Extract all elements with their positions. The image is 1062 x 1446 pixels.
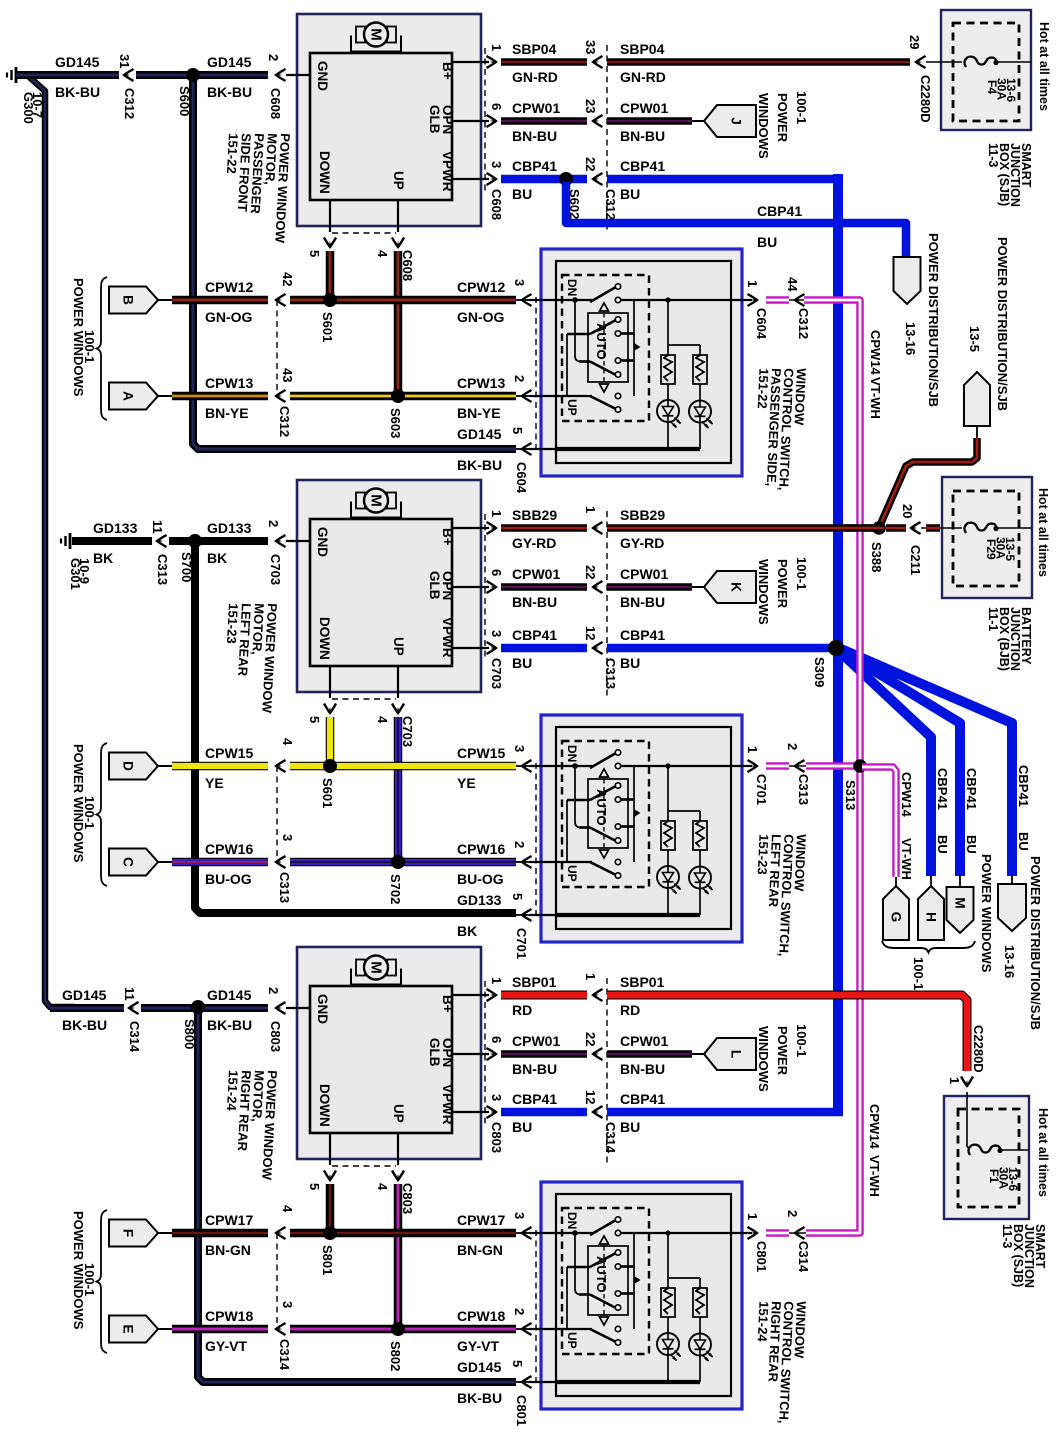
fuse F4 symbol xyxy=(965,57,996,67)
svg-text:CBP41: CBP41 xyxy=(935,768,950,810)
wire GND stub xyxy=(286,1007,311,1009)
svg-text:SBP01: SBP01 xyxy=(512,974,557,990)
wire CPW14 VT-WH jumper xyxy=(766,762,789,770)
svg-text:BK-BU: BK-BU xyxy=(457,457,502,473)
svg-text:GD133: GD133 xyxy=(207,520,252,536)
wire CPW01 BN-BU segment A xyxy=(501,1050,587,1058)
svg-text:20: 20 xyxy=(900,504,915,518)
svg-text:100-1: 100-1 xyxy=(794,91,809,124)
switch pin 1 arrow xyxy=(748,294,758,306)
svg-text:BK: BK xyxy=(207,550,227,566)
AUTO lower contact xyxy=(579,826,590,829)
wire GD145 BK-BU ground segment A xyxy=(50,1004,124,1012)
svg-text:B+: B+ xyxy=(440,528,455,546)
svg-text:CPW12: CPW12 xyxy=(457,279,505,295)
svg-text:1: 1 xyxy=(489,977,504,984)
svg-text:151-23: 151-23 xyxy=(224,603,241,644)
connector C2280D bottom arrow xyxy=(961,1077,973,1087)
svg-text:POWER: POWER xyxy=(775,1026,790,1076)
svg-text:CPW15: CPW15 xyxy=(205,745,253,761)
connector M xyxy=(947,887,974,933)
wire CPW18 GY-VT from E xyxy=(158,1328,172,1330)
window control switch block window control switch passenger side xyxy=(541,249,742,476)
pin UP stub xyxy=(397,666,399,698)
svg-text:S802: S802 xyxy=(388,1341,403,1371)
svg-text:GN-RD: GN-RD xyxy=(620,69,666,85)
svg-text:2: 2 xyxy=(512,841,527,848)
wire GD133 BK ground segment B xyxy=(169,537,268,545)
svg-text:C313: C313 xyxy=(277,872,292,903)
LED right xyxy=(689,1334,711,1356)
svg-text:13-6: 13-6 xyxy=(1006,1167,1020,1191)
svg-text:VPWR: VPWR xyxy=(440,617,455,658)
connector mid arrow xyxy=(593,1048,603,1060)
resistor right xyxy=(693,1288,707,1317)
svg-text:C604: C604 xyxy=(514,462,529,494)
connector left arrow bottom xyxy=(276,390,286,402)
wire DN contact row xyxy=(529,299,592,301)
svg-text:BN-BU: BN-BU xyxy=(512,128,557,144)
svg-text:GD133: GD133 xyxy=(93,520,138,536)
splice S601 row2 dot xyxy=(323,759,337,773)
pin 1 stub xyxy=(452,994,489,996)
svg-text:1: 1 xyxy=(947,1077,962,1084)
illumination branch wire xyxy=(667,766,669,821)
connector C803 pin 1 arrow xyxy=(487,989,497,1001)
pin UP stub xyxy=(397,1133,399,1165)
wire GD145 BK-BU left ground bus xyxy=(27,75,75,1007)
svg-text:C801: C801 xyxy=(514,1395,529,1426)
svg-text:3: 3 xyxy=(489,161,504,168)
svg-text:C312: C312 xyxy=(277,406,292,437)
mid arrow out xyxy=(795,1227,805,1239)
pin lead-in lines xyxy=(516,765,532,767)
brace 100-1 power windows xyxy=(97,1210,108,1353)
svg-text:C211: C211 xyxy=(908,545,923,575)
svg-text:151-23: 151-23 xyxy=(755,834,772,875)
pin 6 stub xyxy=(452,120,489,122)
wire into F4 xyxy=(926,61,962,63)
svg-text:12: 12 xyxy=(583,626,598,640)
ground G300 xyxy=(15,67,18,83)
connector mid arrow xyxy=(593,115,603,127)
connector C701 dashed xyxy=(535,763,537,918)
svg-text:CPW14: CPW14 xyxy=(867,1104,882,1150)
splice S601 dot xyxy=(323,293,337,307)
splice S800 xyxy=(192,1002,205,1015)
battery junction box xyxy=(942,477,1032,598)
svg-text:BN-BU: BN-BU xyxy=(620,1061,665,1077)
svg-text:POWER: POWER xyxy=(775,93,790,143)
brace 100-1 power windows xyxy=(97,277,108,420)
wire DN contact row xyxy=(529,1232,592,1234)
switch pin 5 arrow xyxy=(522,1376,532,1388)
switch dashed housing xyxy=(562,741,649,887)
svg-text:2: 2 xyxy=(512,375,527,382)
svg-text:3: 3 xyxy=(512,1212,527,1219)
svg-text:WINDOWS: WINDOWS xyxy=(756,93,771,159)
LED left xyxy=(657,1333,679,1355)
svg-text:2: 2 xyxy=(266,520,281,527)
svg-text:B+: B+ xyxy=(440,995,455,1013)
svg-text:BU: BU xyxy=(1016,832,1031,851)
power window motor block power window motor left rear xyxy=(297,480,481,692)
ground bus inside switch xyxy=(556,1380,700,1384)
connector C608 GND arrow xyxy=(276,69,286,81)
splice S602 dot redraw xyxy=(559,172,573,186)
svg-text:BN-BU: BN-BU xyxy=(512,594,557,610)
wire CPW14 VT-WH branch to G xyxy=(862,767,896,877)
svg-text:43: 43 xyxy=(280,368,295,382)
connector C314 arrow xyxy=(129,1002,139,1014)
wire SBP04 GN-RD long segment xyxy=(607,58,910,66)
wire CPW13 BN-YE from A xyxy=(158,395,172,397)
wire CPW01 BN-BU to J xyxy=(607,117,692,125)
svg-text:GN-OG: GN-OG xyxy=(457,309,505,325)
power window motor block power window motor right rear xyxy=(297,947,481,1159)
wire CPW15 YE from D xyxy=(158,765,172,767)
illumination branch wire xyxy=(667,1233,669,1288)
splice S309 xyxy=(828,640,844,656)
svg-text:151-22: 151-22 xyxy=(755,368,772,409)
svg-text:S601: S601 xyxy=(320,312,335,342)
svg-text:C608: C608 xyxy=(489,189,504,220)
wire into F29 xyxy=(921,527,962,529)
fuse F1 dashed box xyxy=(958,1109,1019,1207)
svg-text:A: A xyxy=(121,391,136,401)
svg-text:C604: C604 xyxy=(754,308,769,340)
svg-text:GND: GND xyxy=(315,527,330,557)
connector mid dashed line xyxy=(606,511,608,698)
connector dashed between DOWN and UP xyxy=(332,698,396,700)
resistor left xyxy=(661,1288,675,1317)
svg-text:C314: C314 xyxy=(277,1339,292,1371)
wire SBP01 RD long segment xyxy=(607,995,967,1071)
AUTO upper contact xyxy=(567,799,590,802)
connector C313 dashed xyxy=(276,766,278,862)
svg-text:6: 6 xyxy=(489,103,504,110)
wire CPW13 UP drop xyxy=(394,251,403,396)
pin 3 stub xyxy=(452,647,489,649)
svg-text:BU: BU xyxy=(512,655,532,671)
svg-text:RD: RD xyxy=(620,1002,640,1018)
switch pin 3 arrow xyxy=(522,294,532,306)
svg-text:2: 2 xyxy=(512,1308,527,1315)
svg-text:BN-BU: BN-BU xyxy=(620,594,665,610)
pin 6 stub xyxy=(452,586,489,588)
svg-text:1: 1 xyxy=(745,280,760,287)
svg-text:DOWN: DOWN xyxy=(317,617,332,660)
svg-text:4: 4 xyxy=(280,1205,295,1213)
switch lever DN xyxy=(590,1220,616,1235)
svg-text:RD: RD xyxy=(512,1002,532,1018)
wire after F4 xyxy=(996,61,1031,63)
svg-text:11: 11 xyxy=(122,987,137,1001)
stub to G xyxy=(895,877,897,887)
svg-text:100-1: 100-1 xyxy=(82,1263,97,1296)
splice S800 dot xyxy=(191,1000,205,1014)
wire CBP41 BU segment A xyxy=(501,1108,587,1117)
svg-text:3: 3 xyxy=(512,279,527,286)
svg-text:5: 5 xyxy=(307,1183,322,1190)
svg-text:UP: UP xyxy=(565,399,579,416)
ground bus inside switch xyxy=(556,913,700,917)
connector UP arrow xyxy=(392,704,404,714)
wire GND stub xyxy=(286,540,311,542)
motor symbol M xyxy=(351,502,401,518)
svg-text:S702: S702 xyxy=(388,874,403,904)
splice S700 dot xyxy=(188,534,202,548)
svg-text:POWER DISTRIBUTION/SJB: POWER DISTRIBUTION/SJB xyxy=(995,237,1010,411)
smart junction box bottom xyxy=(944,1096,1029,1219)
svg-text:GLB: GLB xyxy=(427,105,442,134)
wire CBP41 BU fan to 13-16 xyxy=(841,649,1012,876)
switch pin 3 arrow xyxy=(522,1227,532,1239)
svg-text:151-24: 151-24 xyxy=(755,1301,772,1343)
svg-text:YE: YE xyxy=(205,775,224,791)
wire CBP41 BU fan to H xyxy=(839,651,931,876)
smart junction box top xyxy=(941,10,1031,130)
svg-text:CPW14: CPW14 xyxy=(868,330,883,376)
connector C803 GND arrow xyxy=(276,1002,286,1014)
switch pin 3 arrow xyxy=(522,760,532,772)
svg-text:DN: DN xyxy=(565,279,579,296)
wire CPW13 BN-YE to switch xyxy=(290,392,516,401)
connector C703 dashed line xyxy=(484,514,486,661)
svg-text:29: 29 xyxy=(907,35,922,49)
svg-text:1: 1 xyxy=(745,1213,760,1220)
svg-text:GD145: GD145 xyxy=(62,987,107,1003)
svg-text:13-16: 13-16 xyxy=(903,322,918,355)
connector mid arrow xyxy=(593,642,603,654)
stub to M xyxy=(959,876,961,887)
svg-text:E: E xyxy=(121,1324,136,1333)
svg-text:GN-OG: GN-OG xyxy=(205,309,253,325)
splice S603 dot xyxy=(391,389,405,403)
connector C703 GND arrow xyxy=(276,535,286,547)
connector J xyxy=(692,120,704,122)
connector left arrow bottom xyxy=(276,1323,286,1335)
svg-text:CPW01: CPW01 xyxy=(512,100,560,116)
connector mid arrow xyxy=(593,581,603,593)
svg-text:11-1: 11-1 xyxy=(986,607,1000,631)
wire CBP41 BU row2 to S309 xyxy=(607,644,836,653)
svg-text:1: 1 xyxy=(745,746,760,753)
svg-text:GND: GND xyxy=(315,61,330,91)
pin 6 stub xyxy=(452,1053,489,1055)
connector C313 arrow xyxy=(157,535,167,547)
svg-text:CPW01: CPW01 xyxy=(512,1033,560,1049)
svg-text:11-3: 11-3 xyxy=(986,143,1000,167)
switch pin 2 arrow xyxy=(522,1323,532,1335)
connector mid dashed line xyxy=(606,978,608,1165)
connector UP arrow xyxy=(392,238,404,248)
svg-text:2: 2 xyxy=(266,54,281,61)
mid arrow out xyxy=(795,760,805,772)
splice S600 dot xyxy=(186,68,200,82)
stub to H xyxy=(930,876,932,887)
mechanical link dashed xyxy=(603,313,605,384)
connector left arrow top xyxy=(276,1227,286,1239)
svg-text:1: 1 xyxy=(489,44,504,51)
right bracket wire xyxy=(633,1233,635,1329)
junction on DN wire xyxy=(572,1230,578,1236)
svg-text:BU: BU xyxy=(620,186,640,202)
fuse F29 symbol xyxy=(965,523,996,533)
resistor left xyxy=(661,355,675,384)
svg-text:BN-GN: BN-GN xyxy=(457,1242,503,1258)
pin DOWN stub xyxy=(329,200,331,232)
connector mid arrow xyxy=(593,989,603,1001)
connector C608 dashed line xyxy=(484,48,486,195)
svg-text:42: 42 xyxy=(280,272,295,286)
svg-text:B: B xyxy=(121,295,136,305)
pin lead-in lines xyxy=(516,299,532,301)
svg-text:C803: C803 xyxy=(268,1021,283,1052)
stub line out xyxy=(789,299,806,301)
svg-text:CPW18: CPW18 xyxy=(205,1308,253,1324)
mid arrow out xyxy=(795,294,805,306)
right bracket wire xyxy=(633,300,635,396)
connector left arrow bottom xyxy=(276,856,286,868)
svg-text:1: 1 xyxy=(583,973,598,980)
svg-text:C703: C703 xyxy=(268,554,283,585)
svg-text:SBP04: SBP04 xyxy=(512,41,557,57)
svg-text:BK-BU: BK-BU xyxy=(457,1390,502,1406)
actuator arrow up xyxy=(600,1236,609,1244)
connector C703 pin 1 arrow xyxy=(487,522,497,534)
svg-text:J: J xyxy=(729,117,744,125)
svg-text:GN-RD: GN-RD xyxy=(512,69,558,85)
svg-text:100-1: 100-1 xyxy=(82,796,97,829)
wire UP contact row xyxy=(529,1328,592,1330)
svg-text:C312: C312 xyxy=(122,88,137,119)
svg-text:2: 2 xyxy=(266,987,281,994)
svg-text:CBP41: CBP41 xyxy=(1016,765,1031,807)
illumination branch wire xyxy=(667,300,669,355)
mechanical link dashed xyxy=(603,1246,605,1317)
wire CPW12 GN-OG to switch xyxy=(290,296,516,305)
window control switch block window control switch left rear xyxy=(541,715,742,942)
wire GD133 BK ground segment A xyxy=(72,537,152,545)
splice S600 xyxy=(187,69,200,82)
svg-text:BU: BU xyxy=(512,1119,532,1135)
switch dashed housing xyxy=(562,275,649,421)
svg-text:C801: C801 xyxy=(754,1241,769,1272)
svg-text:11: 11 xyxy=(150,520,165,534)
svg-text:DOWN: DOWN xyxy=(317,151,332,194)
svg-text:44: 44 xyxy=(785,277,800,292)
svg-text:DN: DN xyxy=(565,1212,579,1229)
svg-text:13-5: 13-5 xyxy=(967,326,982,352)
connector C xyxy=(109,849,158,876)
switch pin 5 arrow xyxy=(522,443,532,455)
splice S601 xyxy=(324,294,337,307)
mechanical link dashed xyxy=(603,779,605,850)
svg-text:5: 5 xyxy=(510,893,525,900)
svg-text:M: M xyxy=(368,494,385,507)
connector C2280D arrow xyxy=(916,56,926,68)
pin 3 stub xyxy=(452,178,489,180)
svg-text:C803: C803 xyxy=(489,1122,504,1153)
svg-text:UP: UP xyxy=(391,637,406,656)
connector E xyxy=(109,1316,158,1343)
svg-text:100-1: 100-1 xyxy=(911,957,926,990)
svg-text:22: 22 xyxy=(583,565,598,579)
svg-text:BK-BU: BK-BU xyxy=(207,1017,252,1033)
junction on DN wire xyxy=(572,763,578,769)
svg-text:3: 3 xyxy=(489,1094,504,1101)
svg-text:Hot at all times: Hot at all times xyxy=(1037,22,1051,111)
svg-text:CPW18: CPW18 xyxy=(457,1308,505,1324)
svg-text:23: 23 xyxy=(583,99,598,113)
svg-text:M: M xyxy=(953,897,968,908)
wire SBP01 RD segment A xyxy=(501,991,587,1000)
svg-text:CBP41: CBP41 xyxy=(512,1091,557,1107)
splice S702 xyxy=(392,856,405,869)
connector mid arrow xyxy=(593,56,603,68)
connector F xyxy=(109,1220,158,1247)
wire CPW01 BN-BU segment A xyxy=(501,117,587,125)
connector B xyxy=(109,287,158,314)
power distribution arrow 13-16 bottom xyxy=(998,884,1026,931)
svg-text:BU: BU xyxy=(512,186,532,202)
connector K xyxy=(692,586,704,588)
connector D xyxy=(109,753,158,780)
svg-text:UP: UP xyxy=(565,865,579,882)
stub line out xyxy=(789,1232,806,1234)
svg-text:C701: C701 xyxy=(754,774,769,805)
brace 100-1 under G H M xyxy=(882,941,975,953)
connector DOWN arrow xyxy=(324,238,336,248)
svg-text:SBP01: SBP01 xyxy=(620,974,665,990)
actuator arrow down xyxy=(600,384,609,392)
svg-text:5: 5 xyxy=(510,427,525,434)
left bracket wire xyxy=(566,800,568,862)
svg-text:CBP41: CBP41 xyxy=(964,768,979,810)
splice S802 xyxy=(392,1323,405,1336)
wire CPW16 UP drop xyxy=(394,717,403,862)
svg-text:6: 6 xyxy=(489,569,504,576)
wire CPW12 DOWN drop xyxy=(326,251,335,300)
wire SBB29 GY-RD to C211 xyxy=(886,524,906,532)
svg-text:GD145: GD145 xyxy=(207,54,252,70)
pin DOWN stub xyxy=(329,1133,331,1165)
svg-text:WINDOWS: WINDOWS xyxy=(756,559,771,625)
svg-text:C608: C608 xyxy=(268,88,283,119)
pin 1 stub xyxy=(452,61,489,63)
svg-text:4: 4 xyxy=(375,1183,390,1191)
svg-text:GY-RD: GY-RD xyxy=(620,535,664,551)
svg-text:DN: DN xyxy=(565,745,579,762)
svg-text:1: 1 xyxy=(583,506,598,513)
connector C703 pin 3 arrow xyxy=(487,642,497,654)
svg-text:4: 4 xyxy=(375,716,390,724)
wire GD145 BK-BU S600 to switch xyxy=(193,75,516,449)
svg-text:VT-WH: VT-WH xyxy=(899,838,914,880)
wire GD133 BK S700 to switch xyxy=(195,541,516,913)
actuator arrow down xyxy=(600,850,609,858)
svg-text:GY-VT: GY-VT xyxy=(457,1338,499,1354)
wire CBP41 BU S602 branch xyxy=(566,182,906,260)
wire CPW15 YE to switch xyxy=(290,762,516,771)
connector dashed between DOWN and UP xyxy=(332,1165,396,1167)
svg-text:CBP41: CBP41 xyxy=(620,158,665,174)
wire CBP41 BU segment A xyxy=(501,644,587,653)
svg-text:2: 2 xyxy=(785,1210,800,1217)
svg-text:BU: BU xyxy=(620,655,640,671)
resistor right xyxy=(693,355,707,384)
